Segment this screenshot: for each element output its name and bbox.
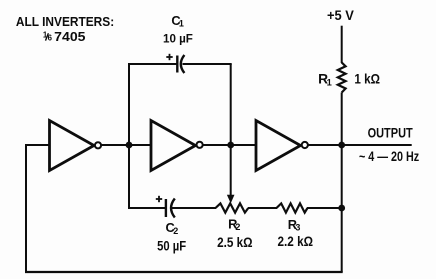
svg-text:50 µF: 50 µF [157, 237, 186, 253]
C1 polarity plus [166, 54, 172, 60]
resistor R1 [338, 63, 346, 93]
R2 wiper arrowhead [227, 195, 235, 204]
wire: R2 wiper from node C [230, 145, 232, 197]
wire: +5V supply lead [341, 26, 343, 63]
inverter U1 [50, 121, 102, 171]
label R1 [318, 72, 332, 88]
wire: C2 to R2 [172, 207, 216, 209]
wire: right vertical, output node down to bottom feedback [341, 145, 343, 272]
label R3 [288, 217, 301, 233]
svg-text:7405: 7405 [54, 29, 85, 44]
wire: inverter3 output to output node [308, 144, 342, 146]
svg-text:2.5 kΩ: 2.5 kΩ [217, 234, 253, 250]
wire: input segment to inverter 1 [26, 144, 51, 146]
note: ALL INVERTERS heading [16, 14, 114, 29]
wire: R1 bottom lead to output node [341, 93, 343, 146]
wire: inverter1 output to inverter2 input (node B) [101, 144, 152, 146]
svg-text:ALL INVERTERS:: ALL INVERTERS: [16, 14, 114, 29]
svg-text:1 kΩ: 1 kΩ [354, 71, 380, 87]
svg-text:2.2 kΩ: 2.2 kΩ [278, 233, 314, 249]
label R2 [228, 216, 240, 232]
wire: feedback bottom horizontal [25, 271, 343, 273]
svg-text:OUTPUT: OUTPUT [368, 126, 414, 141]
svg-text:6: 6 [48, 34, 53, 43]
value 10 uF [163, 32, 193, 46]
resistor R3 [277, 203, 308, 212]
wire: output stub [342, 144, 412, 146]
wire: R2 to R3 [248, 207, 277, 209]
C2 polarity plus [156, 196, 162, 202]
label C1 [171, 13, 184, 29]
capacitor C1 [177, 55, 184, 73]
svg-text:1: 1 [327, 78, 332, 88]
wire: node B down to C2 [129, 145, 165, 208]
wire: C1 loop right vertical (node C up) [230, 64, 232, 145]
svg-text:~ 4 — 20 Hz: ~ 4 — 20 Hz [359, 148, 419, 164]
junction node C [227, 142, 234, 149]
inverter U2 [151, 121, 203, 171]
value 50 uF [157, 237, 186, 253]
inverter U3 [256, 121, 308, 171]
junction output node [338, 142, 345, 149]
svg-text:2: 2 [173, 226, 178, 236]
note: 1/6 7405 [43, 29, 86, 44]
svg-text:+5 V: +5 V [327, 7, 354, 23]
svg-text:2: 2 [235, 222, 240, 232]
value 1 kOhm [354, 71, 380, 87]
wire: C1 loop top left segment [128, 63, 177, 65]
label C2 [166, 220, 179, 236]
capacitor C2 [166, 199, 175, 218]
junction bottom right node [338, 205, 345, 212]
value 2.5 kOhm [217, 234, 253, 250]
value 2.2 kOhm [278, 233, 314, 249]
wire: inverter2 output to inverter3 input (node C) [203, 144, 257, 146]
wire: C1 loop left vertical (node B up) [128, 64, 130, 146]
potentiometer R2 [216, 203, 249, 212]
wire: R3 to right vertical [307, 207, 342, 209]
wire: feedback left vertical [25, 144, 27, 272]
svg-text:3: 3 [295, 223, 300, 233]
svg-text:1: 1 [179, 18, 184, 28]
label ~4 - 20 Hz [359, 148, 419, 164]
junction node B [126, 142, 133, 149]
wire: C1 loop top right segment [183, 63, 232, 65]
svg-text:10 µF: 10 µF [163, 32, 193, 46]
label OUTPUT [368, 126, 414, 141]
label +5 V [327, 7, 354, 23]
